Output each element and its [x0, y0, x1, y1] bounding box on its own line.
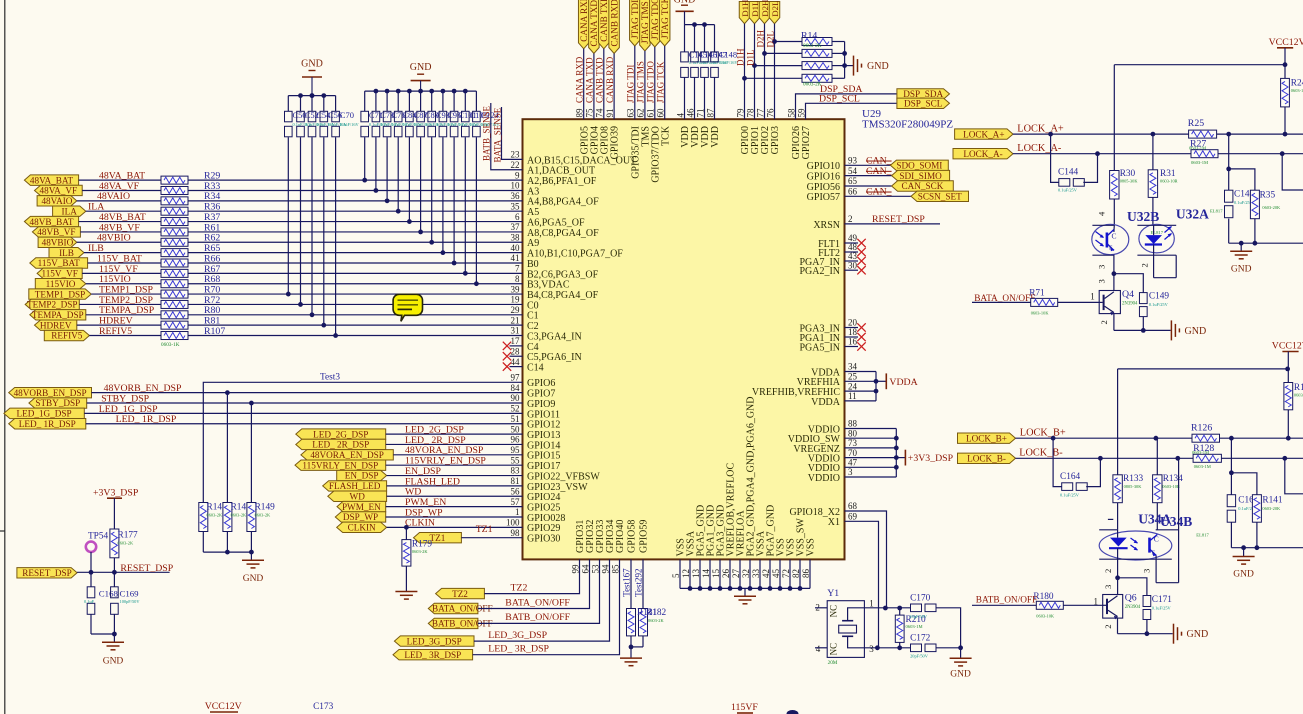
wire X1 pin 69	[845, 521, 879, 648]
svg-text:BATB_ON/OFF: BATB_ON/OFF	[976, 596, 1037, 606]
svg-text:PWM_EN: PWM_EN	[405, 497, 446, 508]
svg-text:TMS320F280049PZ: TMS320F280049PZ	[862, 119, 953, 131]
resistor R66	[161, 259, 188, 267]
ground GND (Q4)	[1170, 320, 1172, 340]
svg-text:Test167: Test167	[621, 568, 631, 597]
port ILA	[53, 206, 86, 216]
resistor R35	[1250, 190, 1259, 219]
wire TZ1	[461, 537, 522, 539]
wire C95 to row	[442, 137, 444, 252]
svg-text:LED_ 2R_DSP: LED_ 2R_DSP	[312, 440, 369, 450]
svg-text:56: 56	[511, 486, 521, 496]
svg-text:81: 81	[511, 476, 520, 486]
svg-text:71: 71	[695, 109, 705, 118]
svg-text:JTAG TDO: JTAG TDO	[646, 61, 656, 103]
wire X2 pin 68	[845, 511, 887, 608]
svg-text:25: 25	[848, 372, 858, 382]
wire Q4 emitter	[1113, 314, 1115, 331]
wire VDD cap bus	[685, 24, 715, 26]
svg-text:0603-2K: 0603-2K	[118, 541, 134, 546]
capacitor C93	[431, 91, 433, 111]
svg-text:ILA: ILA	[62, 206, 78, 216]
svg-text:115VRLY_EN_DSP: 115VRLY_EN_DSP	[302, 460, 378, 470]
resistor R65	[161, 249, 188, 257]
svg-text:0805-30K: 0805-30K	[1124, 484, 1143, 489]
partial symbol bottom	[787, 710, 799, 714]
svg-text:A5: A5	[527, 207, 539, 218]
wire CANB_RXD	[613, 54, 615, 120]
svg-text:48VA_VF: 48VA_VF	[99, 181, 140, 192]
wire Test3 pin 97	[203, 382, 522, 502]
svg-text:A2,B6,PFA1_OF: A2,B6,PFA1_OF	[527, 176, 597, 187]
wire DSP_WP	[386, 516, 523, 518]
wire LOCK_A+ east	[1217, 133, 1303, 135]
svg-text:B4,C8,PGA4_OF: B4,C8,PGA4_OF	[527, 290, 599, 301]
wire ILB	[84, 252, 161, 254]
wire VSS rail	[679, 559, 681, 588]
no-connect pin 44	[510, 366, 523, 368]
svg-text:GPIO39: GPIO39	[610, 126, 621, 159]
no-connect pin 18	[845, 336, 859, 338]
wire R148 branch	[226, 393, 228, 503]
svg-text:VDDA: VDDA	[889, 377, 917, 388]
svg-text:U34B: U34B	[1160, 514, 1192, 529]
svg-text:3: 3	[1142, 569, 1152, 573]
wire HDREV to pin 21	[188, 324, 523, 326]
port JTAG_TDI	[630, 0, 641, 46]
wire TZ1 branch	[404, 525, 409, 530]
port TEMP2_DSP	[25, 299, 79, 309]
svg-text:75: 75	[585, 108, 595, 118]
svg-text:0.1uF: 0.1uF	[84, 599, 95, 604]
wire R30 column from VCC	[1113, 65, 1115, 171]
svg-text:R35: R35	[1260, 191, 1276, 201]
svg-text:R182: R182	[646, 608, 666, 618]
wire 48VA_BAT	[79, 179, 161, 181]
svg-text:2: 2	[1103, 569, 1113, 573]
svg-text:D2H: D2H	[760, 0, 770, 17]
svg-text:2N3904: 2N3904	[1125, 605, 1141, 610]
wire C50 to row	[287, 137, 289, 294]
wire RESET_DSP	[77, 571, 170, 573]
svg-text:LED_1G_DSP: LED_1G_DSP	[99, 404, 158, 415]
svg-text:LED_ 3R_DSP: LED_ 3R_DSP	[404, 650, 461, 660]
wire 115VIO to pin 8	[188, 283, 523, 285]
svg-text:GPIO29: GPIO29	[527, 523, 560, 534]
svg-text:47: 47	[848, 458, 858, 468]
ground GND (C168/C169)	[113, 634, 115, 642]
svg-text:R25: R25	[1188, 118, 1204, 129]
svg-text:61: 61	[646, 109, 656, 118]
svg-text:NC: NC	[829, 643, 839, 656]
svg-text:CANA RXD: CANA RXD	[579, 0, 589, 42]
wire VDD pin	[684, 77, 686, 119]
svg-text:ILB: ILB	[59, 248, 74, 258]
svg-text:41: 41	[511, 253, 520, 263]
svg-text:0603-1K: 0603-1K	[161, 342, 180, 348]
port RESET_DSP	[17, 568, 77, 578]
svg-text:VCC12V: VCC12V	[1272, 341, 1303, 352]
svg-text:X1: X1	[828, 517, 840, 528]
svg-text:LOCK_B+: LOCK_B+	[966, 433, 1007, 443]
svg-text:GND: GND	[301, 59, 323, 70]
svg-text:C: C	[1112, 232, 1117, 241]
svg-text:VCC12V: VCC12V	[205, 701, 242, 712]
svg-text:0603-2K: 0603-2K	[648, 618, 664, 623]
svg-text:1: 1	[1090, 292, 1095, 302]
wire C89 to row	[420, 137, 422, 232]
wire 48VA_BAT to pin 9	[188, 179, 523, 181]
port CANB_TXD	[599, 0, 610, 49]
port LED_2G_DSP	[296, 429, 386, 439]
svg-text:EN_DSP: EN_DSP	[345, 471, 379, 481]
svg-text:C144: C144	[1058, 167, 1078, 177]
port FLASH_LED	[323, 481, 387, 491]
svg-text:A1,DACB_OUT: A1,DACB_OUT	[527, 166, 595, 177]
resistor R14 element 4	[745, 77, 803, 79]
svg-text:CAN_SCK: CAN_SCK	[902, 181, 944, 191]
svg-text:TEMPA_DSP: TEMPA_DSP	[32, 310, 84, 320]
svg-text:JTAG TDI: JTAG TDI	[626, 65, 636, 103]
wire LED_2G_DSP	[386, 433, 523, 435]
capacitor C56	[323, 96, 325, 112]
capacitor C105	[464, 91, 466, 111]
port JTAG_TDO	[650, 0, 661, 47]
svg-text:0.1uF/25V: 0.1uF/25V	[1060, 493, 1080, 498]
port 48VORA_EN_DSP	[301, 450, 393, 460]
svg-text:R134: R134	[1163, 474, 1183, 484]
svg-text:0603-20K: 0603-20K	[1262, 506, 1281, 511]
no-connect pin 30	[845, 269, 859, 271]
port LED_3G_DSP	[394, 636, 474, 646]
resistor R33	[161, 186, 188, 194]
wire pulldown rail	[202, 532, 204, 553]
ground GND (R14)	[845, 65, 853, 67]
svg-text:1: 1	[869, 598, 874, 608]
svg-text:LOCK_A+: LOCK_A+	[1017, 124, 1064, 135]
wire C165 branch	[1230, 438, 1232, 473]
svg-text:77: 77	[755, 108, 765, 118]
port WD	[328, 491, 387, 501]
svg-text:TEMP1_DSP: TEMP1_DSP	[35, 289, 86, 299]
svg-text:C: C	[1154, 535, 1159, 544]
power VDDA	[876, 380, 886, 382]
svg-text:2N3904: 2N3904	[1122, 301, 1138, 306]
svg-text:LED_1G_DSP: LED_1G_DSP	[17, 409, 72, 419]
svg-text:D1H: D1H	[735, 48, 745, 66]
wire VDD pin	[704, 77, 706, 119]
svg-text:0603-10K: 0603-10K	[1031, 311, 1050, 316]
wire LED_3G_DSP	[474, 559, 610, 641]
wire LED_ 3R_DSP	[473, 559, 620, 654]
svg-text:48VA_BAT: 48VA_BAT	[99, 171, 145, 182]
svg-text:11: 11	[848, 391, 857, 401]
svg-text:Test3: Test3	[320, 372, 340, 382]
svg-text:GPIO9: GPIO9	[527, 399, 555, 410]
port LED_1G_DSP	[4, 408, 84, 418]
svg-text:2: 2	[1099, 320, 1109, 324]
no-connect pin 43	[845, 260, 859, 262]
svg-text:38: 38	[511, 232, 521, 242]
capacitor C76	[386, 91, 388, 111]
svg-text:GPIO14: GPIO14	[527, 440, 560, 451]
svg-text:0603-2K: 0603-2K	[803, 43, 822, 49]
svg-text:C171: C171	[1152, 595, 1172, 605]
svg-text:20M: 20M	[828, 660, 838, 666]
svg-text:GND: GND	[1185, 326, 1207, 337]
wire U32A cathode hook	[1153, 255, 1155, 278]
wire LED__2R_DSP	[386, 443, 523, 445]
svg-text:31: 31	[511, 326, 520, 336]
svg-text:55: 55	[511, 455, 521, 465]
resistor R81	[161, 321, 188, 329]
svg-text:CANB RXD: CANB RXD	[609, 0, 619, 47]
svg-text:LOCK_B-: LOCK_B-	[967, 454, 1006, 464]
wire R180 to Q6 base	[1063, 604, 1102, 606]
svg-text:STBY_DSP: STBY_DSP	[101, 393, 149, 404]
svg-text:4: 4	[816, 644, 821, 654]
wire EN_DSP	[387, 475, 523, 477]
wire pin 66	[845, 195, 912, 197]
svg-text:115V_VF: 115V_VF	[41, 269, 77, 279]
wire TEMP2_DSP to pin 19	[188, 303, 523, 305]
wire D2L	[774, 24, 776, 120]
svg-text:DSP_WP: DSP_WP	[343, 512, 378, 522]
resistor R149	[247, 503, 256, 532]
capacitor C169	[113, 572, 115, 587]
wire LOCK_A- east	[1218, 153, 1303, 155]
svg-text:0603-20K: 0603-20K	[1262, 205, 1281, 210]
svg-text:0603-1M: 0603-1M	[1291, 88, 1303, 93]
svg-text:54: 54	[848, 166, 858, 176]
svg-text:GND: GND	[867, 61, 889, 72]
svg-text:98: 98	[511, 528, 521, 538]
svg-text:0603-2K: 0603-2K	[803, 82, 822, 88]
svg-text:39: 39	[511, 284, 521, 294]
wire C73 to row	[375, 137, 377, 190]
resistor R107	[161, 332, 188, 340]
svg-text:19: 19	[511, 295, 521, 305]
ground GND (Q6)	[1173, 624, 1175, 644]
svg-text:CAN_: CAN_	[866, 166, 892, 177]
svg-text:21: 21	[511, 315, 520, 325]
svg-text:0603-10R: 0603-10R	[1162, 484, 1180, 489]
wire bank2 gnd bus	[365, 90, 477, 92]
port LED__1R_DSP	[9, 419, 86, 429]
svg-text:D1L: D1L	[750, 1, 760, 17]
svg-text:16: 16	[848, 337, 858, 347]
svg-text:R177: R177	[118, 531, 138, 541]
svg-text:17: 17	[511, 336, 521, 346]
port DSP_SDA	[897, 89, 950, 99]
svg-text:LED_2G_DSP: LED_2G_DSP	[313, 429, 368, 439]
svg-text:GPIO16: GPIO16	[807, 172, 840, 183]
svg-text:115VIO: 115VIO	[46, 279, 76, 289]
svg-text:LED_ 2R_DSP: LED_ 2R_DSP	[405, 435, 466, 446]
svg-text:0.1uF/25V: 0.1uF/25V	[1058, 188, 1078, 193]
capacitor C164	[1053, 438, 1062, 486]
svg-text:LED_ 3R_DSP: LED_ 3R_DSP	[488, 644, 549, 655]
svg-text:C173: C173	[313, 702, 333, 712]
wire TP54 stub	[90, 552, 92, 572]
svg-text:0.1uF/25V: 0.1uF/25V	[1149, 302, 1169, 307]
svg-text:C149: C149	[1149, 291, 1169, 301]
svg-text:FLASH_LED: FLASH_LED	[329, 481, 381, 491]
port LED__2R_DSP	[296, 439, 386, 449]
power +3V3_DSP (right)	[896, 457, 905, 459]
svg-text:CANB TXD: CANB TXD	[599, 0, 609, 42]
port ILB	[49, 247, 84, 257]
svg-text:D2H: D2H	[755, 30, 765, 48]
wire A- branch east	[1282, 154, 1303, 190]
resistor R80	[161, 311, 188, 319]
resistor R30	[1110, 171, 1119, 200]
svg-text:R149: R149	[255, 503, 275, 513]
wire U32B emitter	[1113, 255, 1115, 274]
svg-text:R179: R179	[412, 539, 432, 549]
wire TEMPA_DSP to pin 29	[188, 314, 523, 316]
port JTAG_TMS	[640, 0, 651, 51]
svg-text:D1H: D1H	[740, 0, 750, 17]
wire D2H	[764, 24, 766, 120]
port 115VRLY_EN_DSP	[295, 460, 386, 470]
wire LOCK_B- east	[1221, 457, 1303, 459]
svg-text:HDREV: HDREV	[99, 316, 133, 327]
port CANA_RXD	[578, 0, 589, 49]
svg-text:66: 66	[848, 187, 858, 197]
wire JTAG_TDI	[634, 46, 636, 119]
svg-text:U32B: U32B	[1127, 209, 1159, 224]
svg-text:48VA_VF: 48VA_VF	[40, 186, 78, 196]
svg-text:LED_3G_DSP: LED_3G_DSP	[488, 630, 547, 641]
svg-text:R133: R133	[1123, 474, 1143, 484]
resistor R177	[110, 529, 119, 558]
wire PWM_EN	[386, 506, 523, 508]
wire Y1 pin3	[864, 647, 910, 649]
svg-text:58: 58	[786, 108, 796, 118]
svg-text:DSP_WP: DSP_WP	[405, 507, 443, 518]
capacitor C50	[287, 96, 289, 112]
svg-text:3: 3	[1103, 585, 1113, 589]
svg-text:115V_BAT: 115V_BAT	[97, 253, 142, 264]
ground GND (R179)	[405, 566, 407, 591]
wire TEMP2_DSP	[79, 303, 161, 305]
svg-text:C164: C164	[1060, 472, 1080, 482]
svg-text:C0: C0	[527, 300, 539, 311]
svg-text:R24: R24	[1291, 79, 1303, 89]
resistor R37	[161, 218, 188, 226]
wire VCC rail A	[1114, 64, 1285, 66]
svg-text:LOCK_B+: LOCK_B+	[1020, 428, 1066, 439]
wire C52 to row	[300, 137, 302, 304]
svg-text:PWM_EN: PWM_EN	[342, 502, 381, 512]
port STBY_DSP	[29, 398, 87, 408]
no-connect pin 28	[510, 355, 523, 357]
capacitor C89	[420, 91, 422, 111]
capacitor C101	[453, 91, 455, 111]
wire C56 to row	[323, 137, 325, 325]
svg-text:6: 6	[515, 212, 520, 222]
svg-text:Q4: Q4	[1122, 289, 1134, 300]
wire 48VBIO	[77, 241, 161, 243]
svg-text:JTAG TCK: JTAG TCK	[660, 0, 670, 39]
svg-text:29: 29	[511, 305, 521, 315]
wire 48VORB_EN_DSP	[92, 392, 523, 394]
svg-text:35: 35	[511, 201, 521, 211]
wire TEMP1_DSP to pin 39	[188, 293, 523, 295]
svg-text:BATA_ON/OFF: BATA_ON/OFF	[505, 597, 570, 608]
wire C105 to row	[464, 137, 466, 273]
transistor Q6	[1103, 595, 1123, 619]
svg-text:Q6: Q6	[1125, 592, 1137, 603]
resistor R68	[161, 280, 188, 288]
svg-text:CANA RXD: CANA RXD	[575, 56, 585, 103]
svg-text:WD: WD	[405, 487, 421, 498]
resistor R138	[1287, 369, 1289, 383]
port 115VIO	[35, 279, 86, 289]
wire ILA	[86, 210, 161, 212]
wire R31 column	[1152, 134, 1154, 170]
resistor R182	[639, 609, 648, 636]
svg-text:EL817: EL817	[1151, 230, 1164, 235]
svg-text:VSS: VSS	[806, 538, 817, 556]
svg-text:B3,VDAC: B3,VDAC	[527, 280, 570, 291]
svg-text:LED_ 1R_DSP: LED_ 1R_DSP	[19, 419, 76, 429]
svg-text:74: 74	[595, 108, 605, 118]
wire C87 to row	[408, 137, 410, 221]
svg-text:18: 18	[848, 327, 858, 337]
svg-text:76: 76	[765, 108, 775, 118]
svg-text:TEMPA_DSP: TEMPA_DSP	[99, 305, 155, 316]
svg-text:C172: C172	[910, 633, 930, 643]
svg-text:0603-1M: 0603-1M	[1191, 160, 1208, 165]
svg-text:97: 97	[511, 373, 521, 383]
wire C70 to row	[335, 137, 337, 335]
wire REFIV5 to pin 31	[188, 335, 523, 337]
svg-text:GPIO25: GPIO25	[527, 503, 560, 514]
svg-text:0805-30K: 0805-30K	[1120, 179, 1139, 184]
wire 48VB_VF	[80, 231, 161, 233]
wire 115V_BAT to pin 41	[188, 262, 523, 264]
svg-text:48VB_BAT: 48VB_BAT	[30, 217, 74, 227]
port 115V_VF	[37, 268, 82, 278]
svg-text:A8,C8,PGA4_OF: A8,C8,PGA4_OF	[527, 228, 599, 239]
no-connect pin 17	[510, 345, 523, 347]
wire JTAG_TDO	[654, 47, 656, 119]
resistor R141	[1252, 495, 1261, 523]
svg-text:70: 70	[848, 448, 858, 458]
svg-text:A6,PGA5_OF: A6,PGA5_OF	[527, 217, 585, 228]
resistor R36	[161, 207, 188, 215]
svg-text:VCC12V: VCC12V	[1269, 37, 1303, 48]
svg-text:C2: C2	[527, 321, 539, 332]
svg-text:9: 9	[515, 170, 520, 180]
svg-text:PGA2_IN: PGA2_IN	[799, 266, 840, 277]
svg-text:RESET_DSP: RESET_DSP	[120, 563, 173, 574]
svg-text:50: 50	[511, 424, 521, 434]
svg-text:EL817: EL817	[1210, 209, 1223, 214]
port 48VA_VF	[35, 185, 83, 195]
svg-text:48VBIO: 48VBIO	[97, 233, 131, 244]
svg-text:20: 20	[848, 318, 858, 328]
resistor R148	[223, 503, 232, 532]
svg-text:88: 88	[848, 419, 858, 429]
svg-text:115VRLY_EN_DSP: 115VRLY_EN_DSP	[405, 456, 486, 467]
svg-text:VDD: VDD	[710, 126, 721, 148]
svg-text:GND: GND	[410, 62, 432, 73]
wire 48VA_VF to pin 10	[188, 189, 523, 191]
ground GND (R147-R149)	[250, 552, 252, 560]
